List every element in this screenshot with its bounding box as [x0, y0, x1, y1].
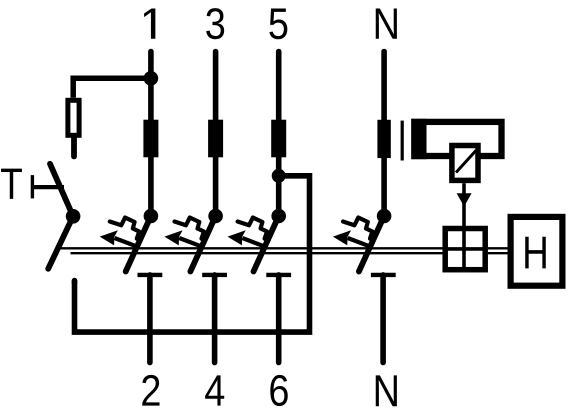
pole 3 top wire: [213, 52, 219, 217]
pole 5 trip release symbol: [228, 218, 267, 248]
CT core bar: [401, 121, 404, 161]
pole 5 switch blade: [254, 216, 279, 272]
pole 1 switch blade: [126, 216, 151, 272]
test button actuator: [32, 175, 64, 198]
pole N contact element: [377, 120, 390, 158]
pole N trip release symbol: [333, 218, 373, 248]
node pole5/test junction: [272, 169, 286, 183]
pole 1 switch contact dot: [144, 209, 159, 224]
indicator H box: [511, 217, 563, 286]
left leg cap: [72, 281, 78, 283]
test circuit top wire: [73, 78, 151, 98]
label 1: [144, 9, 155, 39]
CT secondary winding frame: [414, 122, 501, 156]
pole 5 switch contact dot: [271, 209, 286, 224]
pole 1 contact element: [143, 120, 158, 158]
label 3: [206, 8, 224, 39]
pole 1 fixed contact bar: [138, 273, 163, 277]
actuation arrow down: [457, 193, 472, 206]
pole 2 bottom wire: [147, 275, 153, 363]
mechanism box (crossed square): [445, 229, 485, 270]
label T: [1, 169, 22, 199]
pole 5 top wire: [276, 52, 282, 217]
CT winding block: [411, 119, 426, 159]
label N bottom: [376, 375, 397, 406]
pole 6 bottom wire: [276, 275, 282, 363]
label 4: [205, 375, 224, 405]
pole 1 trip release symbol: [100, 218, 140, 248]
resistor (test): [68, 100, 79, 135]
label 2: [142, 375, 159, 406]
pole 3 fixed contact bar: [202, 273, 227, 277]
pole 1 top wire: [148, 52, 154, 217]
pole 5 fixed contact bar: [266, 273, 291, 277]
test switch pivot dot: [66, 209, 81, 224]
node pole1/test junction: [144, 71, 159, 86]
relay U1 (rect with diagonal): [452, 146, 478, 181]
pole 4 bottom wire: [212, 275, 218, 363]
mechanical coupling line upper: [56, 247, 509, 249]
label N top: [376, 9, 397, 39]
test switch blade upper: [50, 164, 73, 217]
pole 3 switch contact dot: [208, 209, 223, 224]
wire resistor to test switch: [71, 138, 77, 157]
pole N switch blade: [359, 216, 384, 272]
pole N bottom wire: [380, 275, 386, 363]
label 6: [270, 375, 287, 406]
pole 3 contact element: [208, 120, 223, 158]
label 5: [269, 9, 287, 40]
test switch blade lower: [48, 216, 73, 268]
pole N fixed contact bar: [371, 273, 396, 277]
pole 3 trip release symbol: [164, 218, 204, 248]
pole 5 contact element: [271, 120, 286, 158]
test circuit return wire (left leg, bus, right leg, branch): [75, 176, 310, 332]
pole 3 switch blade: [190, 216, 215, 272]
pole N top wire: [381, 52, 387, 217]
pole N switch contact dot: [377, 209, 392, 224]
wire relay to mechanism: [462, 183, 466, 228]
mechanical coupling line lower: [71, 252, 509, 254]
